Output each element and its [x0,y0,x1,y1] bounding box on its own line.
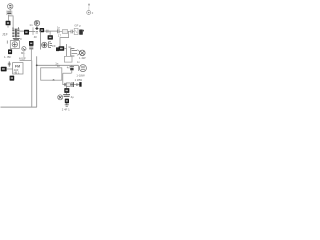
resistor R7 [66,83,70,87]
resistor R6 [59,46,65,51]
wire [59,30,62,32]
resistor R5 [29,41,34,46]
resistor R1 [6,21,11,26]
capacitor C1 [6,11,12,15]
capacitor C7 [8,61,11,66]
microphone MK1 [8,4,13,9]
wire [36,26,38,27]
connector J4 [79,82,81,87]
wire [62,73,64,84]
capacitor marks [36,32,38,33]
svg-text:1 4W: 1 4W [79,56,86,60]
wire [29,30,35,32]
capacitor C11 [63,95,70,97]
IC U3 [64,88,69,93]
svg-text:4F: 4F [34,35,38,39]
wire [44,30,57,32]
resistor R3 [62,30,67,34]
wire [19,30,24,32]
ground bus [1,106,37,108]
svg-text:HB 1: HB 1 [14,70,20,74]
wire [63,72,72,74]
IC U4 [65,99,69,104]
node A [36,64,38,66]
wire [37,64,79,66]
svg-text:1n: 1n [29,23,33,27]
capacitor C8 electrolytic [70,65,74,73]
wire [66,93,68,95]
wire [66,44,68,56]
node bump [52,78,54,81]
transformer T1 [12,27,19,37]
tuning box AM [10,41,19,49]
tuning capacitor CT1 [13,38,20,39]
wire [66,86,68,88]
svg-text:4μ: 4μ [71,95,75,99]
speaker SP1 [80,50,86,56]
wire [64,47,66,49]
bus wire [40,31,42,49]
connector J2 [79,30,83,35]
wire [9,15,14,29]
wire [6,41,8,44]
svg-text:1-18W: 1-18W [76,74,85,78]
capacitor C6 [29,47,33,49]
wire [60,31,69,46]
oscillator M1 [22,47,26,51]
battery B1 [1,67,7,72]
wire [36,56,38,107]
amplifier block A1 [41,68,62,80]
capacitor C3 [58,29,59,33]
antenna AN1 [87,4,91,15]
svg-text:1. BF: 1. BF [4,55,11,59]
wire [30,49,32,61]
wire [77,65,79,71]
ground [65,103,69,106]
switch S2 [8,49,12,54]
wire [31,61,33,108]
capacitor C10 [77,83,78,86]
wire [20,60,32,62]
capacitor C4 [71,30,72,34]
connector P1 [49,42,53,48]
svg-text:F: F [20,37,22,41]
wire [72,30,74,32]
svg-text:1n: 1n [57,64,61,68]
svg-text:M1.: M1. [21,51,26,55]
jack J3 [71,48,80,56]
resistor R2 [48,35,53,39]
svg-text:GF μ: GF μ [74,23,81,27]
IC U1 [24,30,29,35]
svg-text:17: 17 [58,33,62,37]
wire [63,84,80,86]
source G1 [42,42,47,47]
meter M2 [79,65,86,72]
node S3 [56,47,59,51]
svg-text:1n: 1n [57,26,61,30]
node junction [32,27,34,35]
wire [49,31,51,35]
wire [9,9,11,11]
svg-text:FF: FF [52,44,56,48]
svg-text:M1 F: M1 F [19,57,26,61]
wire [68,30,71,32]
module FM [13,63,23,75]
trimmer VC1 [74,28,78,34]
motor M3 [58,95,63,100]
wire [23,51,25,61]
svg-text:J1F: J1F [2,33,8,37]
resistor R8 [64,56,72,62]
switch S4 [10,76,15,81]
capacitor C2 [47,30,48,33]
svg-text:1 18W: 1 18W [75,78,83,82]
diode D1 [35,27,39,30]
wire [7,25,9,27]
svg-text:2 4F 1: 2 4F 1 [62,107,70,111]
IC U2 [40,28,45,32]
capacitor C9 [64,83,65,86]
wire [7,68,13,70]
transistor Q1 [34,20,39,25]
crystal X1 [72,82,74,87]
